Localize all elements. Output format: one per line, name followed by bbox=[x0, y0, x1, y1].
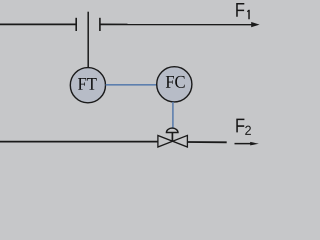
valve stem bbox=[171, 132, 173, 141]
wire: top pipe left segment (F1 line) bbox=[0, 23, 76, 25]
control valve body V1 bbox=[158, 135, 188, 147]
arrowhead F2 bbox=[250, 142, 259, 146]
orifice plate left tap (capacitor-style plate) bbox=[75, 18, 77, 31]
wire: F2 outflow arrow segment bbox=[235, 143, 253, 145]
signal wire FT-FC bbox=[106, 84, 157, 86]
wire: bottom pipe right segment bbox=[187, 141, 226, 143]
label F1 bbox=[236, 3, 244, 17]
signal wire FC-valve bbox=[172, 102, 174, 129]
wire: top pipe right segment bbox=[101, 23, 253, 25]
wire: bottom pipe left segment (F2 line) bbox=[0, 141, 158, 143]
orifice plate element (vertical sensing line top) bbox=[87, 12, 89, 68]
controller FC bbox=[157, 67, 192, 102]
transmitter FT bbox=[70, 68, 105, 103]
label F2 bbox=[236, 119, 244, 133]
orifice plate right tap (capacitor-style plate) bbox=[99, 18, 101, 31]
arrowhead F1 bbox=[251, 22, 259, 27]
valve actuator dome bbox=[166, 128, 178, 132]
